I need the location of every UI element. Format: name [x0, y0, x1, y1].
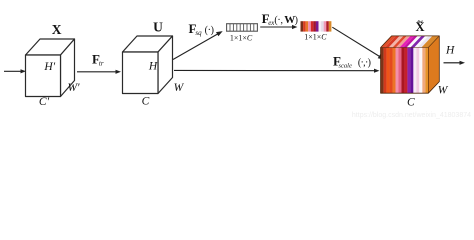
output arrow [444, 61, 466, 65]
svg-text:H: H [445, 45, 455, 57]
F_ex arrow [260, 25, 297, 29]
F_scale arrow [174, 69, 380, 73]
F_sq arrow [173, 31, 223, 59]
svg-text:C: C [407, 97, 415, 109]
svg-text:(·,: (·, [274, 15, 282, 26]
input arrow [4, 69, 26, 73]
svg-text:1×1×C: 1×1×C [304, 33, 327, 42]
svg-text:W: W [438, 85, 449, 97]
svg-text:C′: C′ [39, 96, 50, 108]
output cube right face [428, 36, 439, 93]
F_tr arrow [77, 70, 121, 74]
svg-text:W: W [174, 82, 185, 94]
svg-text:X: X [52, 22, 62, 37]
svg-text:sq: sq [195, 29, 202, 37]
svg-text:(·,·): (·,·) [358, 57, 371, 68]
label F_scale [333, 53, 371, 69]
output cube outline [381, 36, 440, 93]
label X tilde [415, 17, 424, 34]
label F_tr [92, 51, 104, 67]
svg-text:(·): (·) [205, 25, 214, 36]
svg-text:C: C [142, 95, 150, 107]
svg-text:H′: H′ [43, 61, 55, 73]
output tensor X~ cube : top face stripes [381, 36, 440, 48]
squeeze output bar 1x1xC [227, 24, 258, 32]
svg-text:H: H [148, 61, 158, 73]
svg-text:U: U [153, 20, 163, 35]
label F_sq [189, 21, 214, 37]
svg-text:tr: tr [99, 59, 104, 67]
svg-text:W: W [284, 14, 295, 26]
scale arrow from colored bar to output cube [332, 27, 384, 59]
output cube inner edges [381, 36, 440, 93]
excitation output colored bar 1x1xC [301, 21, 332, 31]
svg-text:~: ~ [417, 17, 423, 28]
svg-text:W′: W′ [67, 82, 80, 94]
svg-text:scale: scale [339, 62, 352, 69]
output cube front face stripes [381, 48, 429, 94]
tensor U cube [123, 36, 173, 94]
tensor X cube [26, 39, 75, 97]
svg-text:): ) [295, 15, 298, 26]
svg-text:1×1×C: 1×1×C [230, 33, 253, 42]
svg-text:https://blog.csdn.net/weixin_4: https://blog.csdn.net/weixin_41803874 [352, 112, 471, 119]
label F_ex [262, 11, 298, 27]
